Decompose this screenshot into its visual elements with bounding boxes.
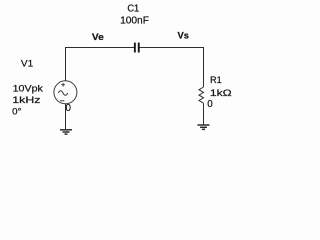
svg-text:V1: V1 [21,58,33,69]
svg-text:C1: C1 [127,4,139,15]
value label 0 degrees [12,107,22,118]
node Vs label [178,30,189,40]
value label 10Vpk [13,83,44,94]
ground (right, under R1) [198,125,210,129]
svg-text:Vs: Vs [178,30,189,40]
value label 1kHz [12,95,40,106]
svg-text:1kΩ: 1kΩ [210,88,232,99]
AC source V1 circle [54,81,77,104]
net 0 label (left) [66,103,72,114]
label C1 [127,4,139,15]
capacitor C1 plates [134,43,140,53]
V1 sine wave mark [58,91,67,96]
value label 1k ohm [210,88,232,99]
wire Vs segment (C1 right plate to R1 top) [140,48,204,88]
svg-text:Ve: Ve [92,32,104,42]
value label 100nF [120,16,149,27]
resistor R1 zigzag [199,87,204,103]
wire R1 bottom to ground [203,103,205,124]
svg-text:0: 0 [207,99,213,110]
ground (left, under V1) [60,130,72,134]
label R1 [210,75,222,86]
svg-text:1kHz: 1kHz [12,95,40,106]
wire Ve segment (source top to C1 left plate) [66,48,135,82]
svg-text:0°: 0° [12,107,22,118]
V1 plus terminal mark [61,83,65,87]
label V1 [21,58,33,69]
net 0 label (right) [207,99,213,110]
V1 minus terminal mark [60,100,64,102]
svg-text:0: 0 [66,103,72,114]
svg-text:10Vpk: 10Vpk [13,83,44,94]
svg-text:100nF: 100nF [120,16,149,27]
svg-text:R1: R1 [210,75,222,86]
node Ve label [92,32,104,42]
wire source bottom to ground [65,104,67,130]
